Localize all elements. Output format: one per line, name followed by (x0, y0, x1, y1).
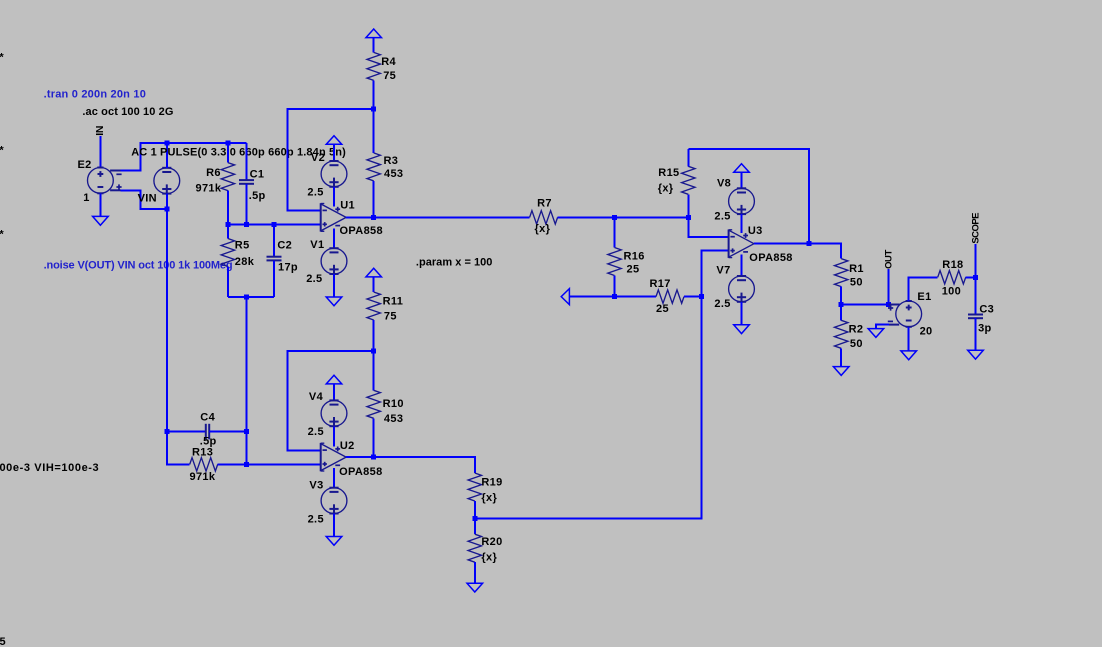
wire U2 feedback (288, 351, 374, 450)
wire U3 feedback top (688, 149, 809, 244)
svg-text:C2: C2 (277, 239, 292, 251)
capacitor C3 (968, 277, 994, 350)
op-amp U1 (321, 200, 383, 238)
wire V7 to ground (741, 302, 743, 325)
wire E1 bottom to ground (908, 327, 910, 351)
svg-text:2.5: 2.5 (307, 187, 323, 199)
svg-text:R17: R17 (650, 278, 671, 290)
svg-text:VIL=100e-3 VIH=100e-3: VIL=100e-3 VIH=100e-3 (0, 462, 99, 474)
svg-text:R5: R5 (235, 239, 250, 251)
junction R17 right (699, 294, 704, 299)
voltage source V1 (306, 239, 347, 285)
svg-text:.param x = 100: .param x = 100 (416, 257, 493, 269)
wire V8 to U3 supply (741, 214, 743, 233)
resistor R15 (658, 149, 695, 217)
wire U1 to V1 supply (333, 228, 335, 248)
wire OUT stub (888, 269, 890, 304)
wire U3 output row (754, 244, 841, 259)
wire E2 minus control to VIN top node (120, 143, 140, 170)
wire IN to E2 (99, 136, 101, 168)
svg-text:{x}: {x} (481, 492, 497, 504)
svg-text:{x}: {x} (481, 551, 497, 563)
resistor R7 (530, 198, 615, 235)
svg-text:E2: E2 (78, 159, 92, 171)
svg-text:VIN: VIN (138, 192, 157, 204)
ground below V1 (326, 297, 342, 306)
svg-text:V7: V7 (716, 264, 730, 276)
svg-text:5: 5 (0, 636, 6, 647)
capacitor C1 (239, 143, 266, 224)
wire E1 top to R18 (909, 277, 938, 301)
svg-text:C1: C1 (250, 168, 265, 180)
svg-text:2.5: 2.5 (308, 513, 324, 525)
svg-text:U3: U3 (748, 225, 763, 237)
svg-text:.noise V(OUT) VIN oct 100 1k 1: .noise V(OUT) VIN oct 100 1k 100Meg (44, 259, 233, 271)
resistor R4 (367, 38, 396, 109)
svg-text:E1: E1 (917, 291, 931, 303)
wire U1 feedback (287, 109, 373, 210)
wire V2 to U1 supply (333, 187, 335, 207)
wire output node row (841, 303, 888, 305)
voltage source V7 (714, 264, 754, 310)
ground below R20 (467, 583, 483, 592)
svg-text:*: * (0, 145, 4, 157)
svg-text:453: 453 (384, 168, 403, 180)
svg-text:U2: U2 (340, 440, 355, 452)
svg-text:R7: R7 (537, 198, 552, 210)
svg-text:V2: V2 (311, 152, 325, 164)
junction R15 bottom (686, 215, 691, 220)
svg-text:OPA858: OPA858 (340, 225, 383, 237)
junction VIN bottom (164, 207, 169, 212)
svg-text:R3: R3 (384, 155, 399, 167)
wire V4 to U2 supply (333, 426, 335, 446)
power arrow above R4 (366, 29, 382, 38)
svg-text:R2: R2 (849, 323, 864, 335)
wire R13 to U2 plus (247, 463, 321, 465)
ground below V3 (326, 537, 342, 546)
wire E2 plus control to VIN bottom node (120, 190, 167, 209)
junction C1 bottom (244, 222, 249, 227)
svg-text:20: 20 (920, 326, 933, 338)
junction R11 R10 (371, 349, 376, 354)
capacitor C4 (167, 412, 247, 448)
junction C4 right (244, 429, 249, 434)
junction R16 bottom (612, 294, 617, 299)
svg-text:28k: 28k (235, 256, 255, 268)
wire U1 plus input row (228, 223, 321, 225)
resistor R3 (367, 109, 403, 217)
svg-text:25: 25 (656, 303, 669, 315)
svg-text:R6: R6 (206, 167, 221, 179)
svg-text:2.5: 2.5 (714, 298, 730, 310)
vcvs source E1 (888, 291, 933, 338)
svg-text:R11: R11 (383, 296, 404, 308)
svg-text:V8: V8 (717, 177, 731, 189)
op-amp U2 (321, 440, 383, 478)
svg-text:IN: IN (94, 126, 106, 136)
ground E1 control (868, 329, 884, 338)
voltage source V4 (308, 391, 347, 438)
wire V1 to ground (333, 274, 335, 297)
svg-text:R4: R4 (381, 56, 396, 68)
voltage source V8 (714, 177, 754, 222)
wire VIN bottom long vertical (167, 194, 190, 465)
resistor R17 (615, 278, 702, 315)
svg-text:V4: V4 (309, 391, 324, 403)
svg-text:100: 100 (942, 286, 961, 298)
ground below C3 (968, 350, 984, 359)
svg-text:{x}: {x} (535, 223, 551, 235)
wire U2 output row (346, 457, 475, 473)
junction U2 output (371, 455, 376, 460)
svg-text:C3: C3 (979, 303, 994, 315)
junction OUT (886, 302, 891, 307)
wire E2 to ground (99, 193, 101, 217)
wire R7 to R15 node (615, 216, 689, 218)
resistor R18 (938, 259, 976, 297)
svg-text:2.5: 2.5 (306, 273, 322, 285)
wire U1 output row (346, 216, 529, 218)
svg-text:R16: R16 (624, 251, 645, 263)
svg-text:C4: C4 (200, 412, 215, 424)
svg-text:*: * (0, 229, 4, 241)
ground below V7 (734, 325, 750, 334)
junction bottom row (244, 295, 249, 300)
svg-text:3p: 3p (978, 323, 992, 335)
wire R15 node to U3 minus input (688, 217, 728, 236)
svg-text:U1: U1 (340, 200, 355, 212)
svg-text:50: 50 (850, 277, 863, 289)
svg-text:*: * (0, 52, 4, 64)
wire SCOPE stub (975, 244, 977, 277)
wire top node horizontal (140, 142, 247, 144)
junction R4 bottom (371, 107, 376, 112)
junction R18 right (973, 275, 978, 280)
power arrow above R11 (366, 268, 382, 277)
ground below E2 (93, 216, 109, 225)
svg-text:75: 75 (383, 70, 396, 82)
vcvs source E2 (78, 159, 122, 204)
wire bottom row down to C4 right (246, 297, 248, 464)
svg-text:{x}: {x} (658, 183, 674, 195)
resistor R5 (221, 224, 255, 297)
wire arrow to V2 (333, 144, 335, 161)
resistor R1 (835, 259, 864, 305)
svg-text:25: 25 (627, 263, 640, 275)
resistor R11 (367, 277, 403, 351)
resistor R13 (190, 446, 247, 483)
wire arrow to V4 (333, 384, 335, 401)
svg-text:R18: R18 (942, 259, 963, 271)
junction R19 R20 (472, 516, 477, 521)
resistor R10 (367, 351, 404, 457)
svg-text:R20: R20 (481, 536, 502, 548)
wire arrow to V8 (741, 172, 743, 189)
op-amp U3 (729, 225, 793, 264)
resistor R19 (468, 473, 503, 518)
wire V3 to ground (333, 514, 335, 537)
svg-text:V3: V3 (309, 479, 323, 491)
junction U3 output (807, 241, 812, 246)
svg-text:17p: 17p (278, 262, 298, 274)
wire U3 to V7 supply (741, 255, 743, 277)
junction R6 bottom (225, 222, 230, 227)
wire R19 junction to U3 plus input (475, 251, 729, 519)
wire U2 to V3 supply (333, 468, 335, 488)
power arrow above V2 (326, 136, 342, 145)
svg-text:V1: V1 (310, 239, 324, 251)
power arrow above V4 (326, 375, 342, 384)
ground below R2 (833, 367, 849, 376)
voltage source VIN (138, 168, 180, 205)
junction R13 right (244, 462, 249, 467)
svg-text:2.5: 2.5 (714, 211, 730, 223)
junction R7 right (612, 215, 617, 220)
resistor R20 (468, 518, 503, 583)
wire VIN top (166, 143, 168, 168)
capacitor C2 (267, 224, 299, 297)
svg-text:R19: R19 (481, 477, 502, 489)
junction R1 R2 (839, 302, 844, 307)
resistor R6 (196, 143, 235, 224)
svg-text:1: 1 (83, 192, 89, 204)
svg-text:75: 75 (384, 311, 397, 323)
junction VIN top (164, 141, 169, 146)
wire E1 minus control to ground (876, 325, 889, 329)
svg-text:50: 50 (850, 338, 863, 350)
svg-text:971k: 971k (190, 471, 216, 483)
junction R6 top (225, 141, 230, 146)
power arrow above V8 (734, 164, 750, 173)
junction U1 output (371, 215, 376, 220)
svg-text:OPA858: OPA858 (339, 466, 382, 478)
voltage source V2 (307, 152, 347, 199)
port arrow left (561, 289, 569, 305)
svg-text:.5p: .5p (249, 190, 266, 202)
svg-text:SCOPE: SCOPE (971, 213, 982, 244)
svg-text:R10: R10 (383, 398, 404, 410)
svg-text:OUT: OUT (884, 250, 895, 269)
svg-text:971k: 971k (196, 182, 222, 194)
junction C2 top (272, 222, 277, 227)
voltage source V3 (308, 479, 347, 525)
resistor R16 (608, 217, 645, 296)
svg-text:2.5: 2.5 (308, 426, 324, 438)
ground below E1 (901, 351, 917, 360)
wire R5 C2 bottom row (228, 296, 274, 298)
junction C4 left (164, 429, 169, 434)
svg-text:OPA858: OPA858 (749, 252, 792, 264)
svg-text:.tran 0 200n 20n 10: .tran 0 200n 20n 10 (44, 88, 146, 100)
svg-text:453: 453 (384, 413, 403, 425)
svg-text:R15: R15 (658, 167, 679, 179)
resistor R2 (835, 304, 864, 367)
svg-text:R1: R1 (849, 263, 864, 275)
svg-text:R13: R13 (192, 446, 213, 458)
svg-text:.ac oct 100 10 2G: .ac oct 100 10 2G (82, 106, 173, 118)
wire arrow to R16 bottom (569, 296, 614, 298)
